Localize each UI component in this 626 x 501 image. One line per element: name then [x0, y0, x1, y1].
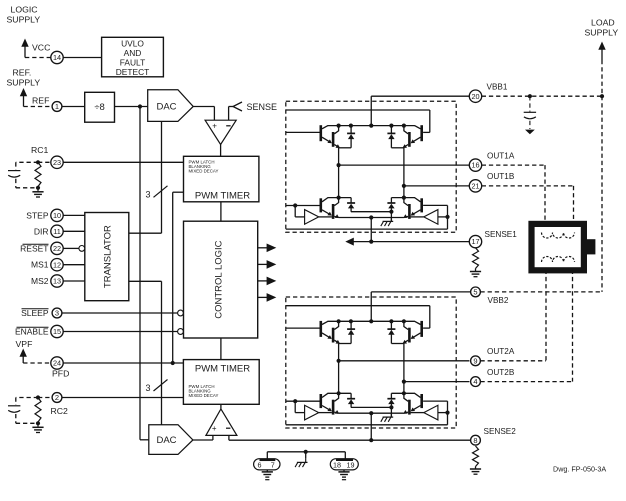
svg-text:3: 3 [145, 190, 150, 200]
svg-text:9: 9 [473, 356, 477, 365]
TRANSLATOR block [85, 213, 129, 301]
ground RS1 [475, 269, 477, 272]
wire DIR to translator [63, 230, 85, 232]
svg-text:20: 20 [471, 92, 479, 101]
svg-text:15: 15 [53, 327, 61, 336]
stepper motor load [532, 224, 584, 270]
svg-text:SENSE: SENSE [247, 102, 278, 112]
wire VPF to pin 24 (dashed) [23, 362, 50, 364]
bus width slash 3 (upper) [154, 186, 168, 198]
svg-text:VPF: VPF [16, 339, 33, 349]
gnd pins 18 19 [330, 459, 358, 470]
svg-text:21: 21 [471, 182, 479, 191]
svg-text:+: + [212, 424, 217, 433]
wire comparator2 - input to SENSE2 line [228, 435, 230, 440]
wire OUT2B to motor winding 2 (dashed) [480, 381, 572, 383]
svg-text:FAULT: FAULT [120, 58, 145, 68]
pin 12 MS1 [51, 259, 63, 271]
svg-text:DAC: DAC [156, 102, 176, 113]
svg-text:MS1: MS1 [31, 260, 49, 270]
REF supply arrow [20, 88, 27, 96]
wire pin23 to PWM timer 1 [63, 161, 183, 163]
VBB1 external rail (dashed) [482, 95, 602, 97]
pin 2 RC2 [52, 393, 62, 403]
svg-text:OUT2A: OUT2A [487, 347, 515, 356]
wire PWM1 to control logic [220, 202, 222, 221]
pin 5 VBB2 [471, 287, 481, 297]
resistor R-RC2 [35, 398, 41, 423]
bus width slash 3 (lower) [154, 380, 168, 392]
svg-text:STEP: STEP [26, 210, 49, 220]
svg-text:PFD: PFD [52, 369, 69, 379]
wire MS2 to translator [63, 280, 85, 282]
PWM timer 1 block [184, 156, 259, 202]
bus translator to DAC2 (3 bits) [129, 280, 162, 282]
svg-text:RESET: RESET [20, 243, 48, 253]
wire ENABLE to control logic with bubble [63, 331, 177, 333]
svg-text:DIR: DIR [34, 226, 49, 236]
node PFD branch [171, 361, 175, 365]
svg-text:SUPPLY: SUPPLY [585, 28, 619, 38]
svg-text:+: + [212, 121, 217, 130]
bus translator to DAC1 (3 bits) [129, 232, 162, 234]
svg-text:SLEEP: SLEEP [21, 308, 49, 318]
svg-text:MIXED DECAY: MIXED DECAY [189, 169, 219, 174]
wire MS1 to translator [63, 264, 85, 266]
pin 24 PFD [51, 357, 63, 369]
svg-text:VCC: VCC [32, 43, 50, 53]
pin 13 MS2 [51, 275, 63, 287]
svg-text:23: 23 [53, 158, 61, 167]
svg-text:16: 16 [471, 161, 479, 170]
svg-text:RC2: RC2 [51, 406, 69, 416]
wire pin14 to UVLO block [63, 57, 101, 59]
DAC U2 (upper) [148, 90, 194, 122]
svg-text:8: 8 [473, 436, 477, 445]
wire control logic to PWM2 [220, 338, 222, 360]
wire SLEEP to control logic with bubble [62, 312, 178, 314]
ground RC2 [37, 423, 39, 427]
ground RC1 [37, 188, 39, 192]
svg-text:÷8: ÷8 [94, 102, 105, 113]
svg-text:MS2: MS2 [31, 276, 49, 286]
sense resistor RS1 [473, 248, 479, 269]
control output arrow 4 [258, 296, 270, 298]
svg-text:17: 17 [471, 237, 479, 246]
node: REF/8 junction [138, 104, 142, 108]
VPF supply arrow [20, 349, 27, 357]
ground for pins 18 19 [343, 470, 345, 472]
gnd pins 6 7 [254, 459, 280, 470]
svg-text:18: 18 [333, 460, 341, 469]
pin 9 OUT2A [471, 356, 481, 366]
svg-text:22: 22 [53, 244, 61, 253]
control output arrow 2 [258, 263, 270, 265]
pin 21 OUT1B [469, 180, 481, 192]
svg-text:6: 6 [258, 460, 262, 469]
svg-text:CONTROL LOGIC: CONTROL LOGIC [214, 240, 225, 318]
wire pin1 to divider [62, 106, 85, 108]
capacitor C-RC1 branch (dashed) [16, 161, 38, 163]
svg-text:MIXED DECAY: MIXED DECAY [189, 393, 219, 398]
svg-text:REF: REF [32, 96, 49, 106]
svg-text:TRANSLATOR: TRANSLATOR [103, 225, 114, 288]
SENSE2 line to comparator2 [229, 439, 471, 441]
svg-text:3: 3 [55, 309, 59, 318]
svg-text:24: 24 [53, 359, 61, 368]
pin 14 VCC [51, 51, 63, 63]
wire divider to DAC1 [115, 106, 148, 108]
wire REF arrow to pin 1 (dashed) [24, 106, 53, 108]
svg-text:SENSE1: SENSE1 [485, 230, 518, 239]
SENSE2 tap from bridge 2 [370, 428, 372, 440]
svg-text:3: 3 [145, 383, 150, 393]
divide-by-8 block [85, 92, 115, 122]
SENSE1 line with feedback arrow [353, 241, 470, 243]
SENSE input stub with arrow [228, 107, 230, 121]
pin 8 SENSE2 [471, 435, 481, 445]
resistor R-RC1 [35, 162, 41, 186]
svg-text:13: 13 [53, 277, 61, 286]
pin 20 VBB1 [469, 90, 481, 102]
svg-text:LOAD: LOAD [591, 18, 615, 28]
pin 3 SLEEP [52, 308, 62, 318]
svg-text:OUT1A: OUT1A [487, 151, 515, 160]
load supply rail (dashed) [601, 60, 603, 292]
H-bridge 1 (phase 1 output stage) [286, 96, 470, 232]
svg-text:19: 19 [347, 460, 355, 469]
H-bridge 2 (phase 2 output stage) [286, 292, 470, 428]
wire REF/8 down to DAC2 [139, 107, 141, 440]
pin 1 REF [52, 102, 62, 112]
pin 15 ENABLE [51, 325, 63, 337]
wire comparator1 output to PWM timer 1 [220, 145, 222, 157]
wire VBB1 feed to pin 20 [371, 95, 469, 97]
wire OUT1A to motor winding 1 (dashed) [482, 164, 545, 166]
svg-text:OUT1B: OUT1B [487, 172, 515, 181]
svg-text:DETECT: DETECT [116, 67, 150, 77]
wire STEP to translator [63, 214, 85, 216]
CONTROL LOGIC block [184, 221, 258, 338]
RC2 external network: node [36, 395, 40, 399]
wire OUT1B to motor winding 1 (dashed) [482, 185, 574, 187]
ground for pins 6 7 [266, 470, 268, 472]
pin 23 RC1 [51, 156, 63, 168]
svg-text:LOGIC: LOGIC [11, 5, 38, 15]
SENSE1 tap from bridge 1 [370, 232, 372, 241]
load supply arrow [598, 42, 605, 50]
VBB1 decoupling capacitor (dashed) [529, 96, 531, 111]
wire comparator2 output to PWM timer 2 [220, 404, 222, 409]
svg-text:10: 10 [53, 211, 61, 220]
wire RESET to translator with inverter bubble [63, 247, 79, 249]
svg-text:Dwg. FP-050-3A: Dwg. FP-050-3A [553, 465, 606, 474]
svg-text:PWM TIMER: PWM TIMER [195, 190, 250, 201]
svg-text:2: 2 [55, 393, 59, 402]
wire RC2 node to pin 2 (dashed) [38, 397, 52, 399]
VBB2 external rail (dashed) [480, 291, 602, 293]
wire OUT2A to motor winding 2 (dashed) [480, 360, 546, 362]
wire VBB2 feed to pin 5 [371, 291, 471, 293]
svg-text:AND: AND [124, 48, 142, 58]
wire to gnd pins 6-7 [266, 452, 268, 459]
wire DAC2 output to comparator2 + input [193, 439, 213, 441]
svg-text:ENABLE: ENABLE [15, 327, 49, 337]
motor winding 1 (dashed coil) [542, 233, 575, 239]
UVLO and fault detect block U1 [102, 37, 164, 77]
pin 16 OUT1A [469, 159, 481, 171]
svg-text:4: 4 [473, 377, 477, 386]
wire RC1 node to pin 23 (dashed) [38, 161, 51, 163]
svg-text:VBB1: VBB1 [487, 83, 508, 92]
svg-text:RC1: RC1 [31, 145, 49, 155]
comparator A1 (upper) [205, 120, 236, 144]
sense resistor RS2 [473, 446, 479, 467]
svg-text:VBB2: VBB2 [488, 296, 509, 305]
control output arrow 3 [258, 280, 270, 282]
DAC U3 (lower) [149, 425, 193, 455]
capacitor C-RC2 branch (dashed) [16, 397, 38, 399]
pin 11 DIR [51, 225, 63, 237]
motor winding 2 (dashed coil) [542, 257, 575, 263]
svg-text:REF.: REF. [13, 68, 32, 78]
VCC supply arrow [21, 39, 28, 47]
comparator A2 (lower) [206, 409, 237, 436]
wire PFD branch up to PWM timer 1 [172, 192, 174, 363]
PWM timer 2 block [183, 360, 259, 405]
svg-text:SUPPLY: SUPPLY [7, 15, 41, 25]
pin 10 STEP [51, 209, 63, 221]
pin 22 RESET [51, 242, 63, 254]
ground RS2 [475, 467, 477, 470]
pin 17 SENSE1 [469, 235, 481, 247]
svg-text:12: 12 [53, 260, 61, 269]
wire pin24 to PWM timers [63, 362, 183, 364]
svg-text:SENSE2: SENSE2 [484, 427, 517, 436]
svg-text:11: 11 [53, 227, 61, 236]
svg-text:SUPPLY: SUPPLY [7, 78, 41, 88]
wire to gnd pins 18-19 [344, 452, 346, 459]
RC1 external network: node [36, 160, 40, 164]
svg-text:1: 1 [55, 102, 59, 111]
svg-text:PWM TIMER: PWM TIMER [195, 363, 250, 374]
svg-text:OUT2B: OUT2B [487, 368, 515, 377]
wire DAC1 output to comparator [193, 106, 214, 108]
svg-text:UVLO: UVLO [121, 39, 144, 49]
svg-text:7: 7 [271, 460, 275, 469]
wire pin2 to PWM timer 2 [62, 397, 183, 399]
svg-text:14: 14 [53, 53, 61, 62]
wire VCC arrow to pin 14 (dashed) [25, 57, 51, 59]
ground bus [267, 451, 345, 453]
svg-text:5: 5 [473, 288, 477, 297]
control output arrow 1 [258, 247, 270, 249]
pin 4 OUT2B [471, 377, 481, 387]
chassis ground symbol [305, 452, 307, 459]
svg-text:DAC: DAC [156, 435, 176, 446]
